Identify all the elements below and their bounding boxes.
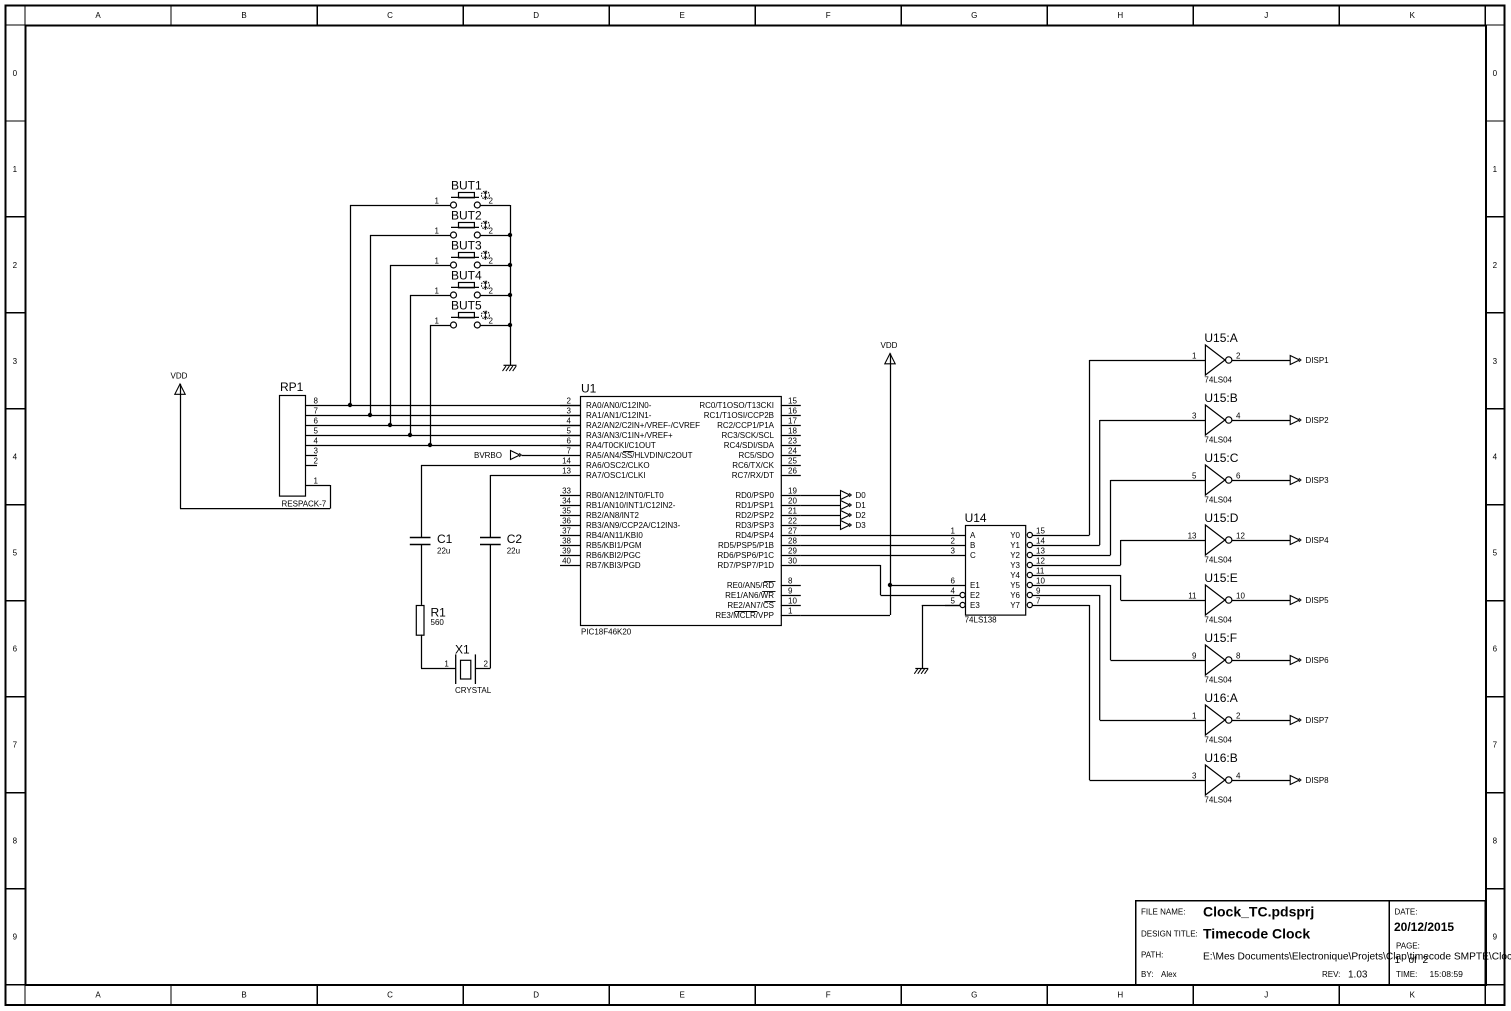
svg-text:7: 7 <box>13 741 18 750</box>
svg-text:3: 3 <box>1493 357 1498 366</box>
svg-text:PIC18F46K20: PIC18F46K20 <box>581 628 632 637</box>
svg-text:A: A <box>970 531 976 540</box>
svg-text:E1: E1 <box>970 581 980 590</box>
svg-text:D0: D0 <box>856 491 867 500</box>
wire U1 OSC1 to C2 <box>490 475 560 537</box>
svg-text:3: 3 <box>567 406 572 415</box>
svg-text:RA3/AN3/C1IN+/VREF+: RA3/AN3/C1IN+/VREF+ <box>586 431 673 440</box>
svg-text:U14: U14 <box>965 511 987 525</box>
svg-text:29: 29 <box>788 546 797 555</box>
svg-text:B: B <box>241 11 246 20</box>
svg-text:RA6/OSC2/CLKO: RA6/OSC2/CLKO <box>586 461 650 470</box>
wire U1 RD1 to terminal D1 <box>801 505 841 507</box>
svg-text:39: 39 <box>562 546 571 555</box>
svg-text:U15:F: U15:F <box>1204 631 1237 645</box>
svg-text:RE1/AN6/WR: RE1/AN6/WR <box>725 591 774 600</box>
svg-text:E: E <box>679 11 684 20</box>
power flag VDD (RP1 common) <box>171 372 188 395</box>
svg-text:12: 12 <box>1036 556 1045 565</box>
svg-text:H: H <box>1117 11 1123 20</box>
svg-text:10: 10 <box>1036 576 1045 585</box>
wire BUT2 pin 1 to RA1 net <box>370 235 451 415</box>
svg-text:4: 4 <box>1236 411 1241 420</box>
svg-text:4: 4 <box>13 453 18 462</box>
svg-text:C1: C1 <box>437 532 453 546</box>
terminal D0 <box>841 491 867 500</box>
svg-text:B: B <box>241 991 246 1000</box>
crystal X1 (CRYSTAL) <box>444 643 491 696</box>
wire BUT1 pin 2 to ground bus <box>480 205 510 207</box>
svg-text:6: 6 <box>567 436 572 445</box>
wire RP1 pin 6 to U1 RA2 <box>306 425 580 427</box>
svg-text:BUT3: BUT3 <box>451 239 482 253</box>
wire VDD rail to MCLR row <box>890 354 892 616</box>
svg-text:Y1: Y1 <box>1010 541 1020 550</box>
svg-text:D1: D1 <box>856 501 867 510</box>
svg-text:1: 1 <box>435 226 440 235</box>
svg-text:RB6/KBI2/PGC: RB6/KBI2/PGC <box>586 551 641 560</box>
svg-text:RC0/T1OSO/T13CKI: RC0/T1OSO/T13CKI <box>699 401 774 410</box>
svg-text:6: 6 <box>314 416 319 425</box>
svg-text:26: 26 <box>788 466 797 475</box>
wire BUT3 pin 2 to ground bus <box>480 265 510 267</box>
svg-text:C: C <box>387 11 393 20</box>
capacitor C1 (22u) <box>410 532 453 556</box>
resistor pack RP1 (RESPACK-7) <box>280 380 327 509</box>
svg-text:27: 27 <box>788 526 797 535</box>
svg-text:1: 1 <box>1493 165 1498 174</box>
svg-text:3: 3 <box>314 446 319 455</box>
svg-text:19: 19 <box>788 486 797 495</box>
svg-text:9: 9 <box>1192 651 1197 660</box>
svg-text:1: 1 <box>444 660 449 669</box>
wire U14 Y0 to U15:A input <box>1045 360 1205 536</box>
svg-text:1: 1 <box>314 476 319 485</box>
svg-text:Alex: Alex <box>1161 970 1177 979</box>
svg-text:RC7/RX/DT: RC7/RX/DT <box>732 471 774 480</box>
svg-text:X1: X1 <box>455 643 470 657</box>
svg-text:DISP6: DISP6 <box>1306 656 1330 665</box>
svg-text:E3: E3 <box>970 601 980 610</box>
svg-text:RD3/PSP3: RD3/PSP3 <box>735 521 774 530</box>
terminal DISP7 <box>1290 716 1329 725</box>
svg-text:RB4/AN11/KBI0: RB4/AN11/KBI0 <box>586 531 643 540</box>
inverter U16:A (74LS04) <box>1192 691 1241 745</box>
svg-text:RB2/AN8/INT2: RB2/AN8/INT2 <box>586 511 639 520</box>
svg-text:DISP1: DISP1 <box>1306 356 1330 365</box>
svg-text:U16:A: U16:A <box>1204 691 1237 705</box>
svg-text:DISP5: DISP5 <box>1306 596 1330 605</box>
svg-text:BVRBO: BVRBO <box>474 451 502 460</box>
svg-text:1.03: 1.03 <box>1348 970 1368 981</box>
wire U14 E3 to ground <box>922 605 960 668</box>
svg-text:DISP8: DISP8 <box>1306 776 1330 785</box>
inverter U15:C (74LS04) <box>1192 451 1241 505</box>
wire VDD to RP1 pin 1 <box>180 384 331 509</box>
push button BUT3 <box>435 239 494 269</box>
svg-text:RB5/KBI1/PGM: RB5/KBI1/PGM <box>586 541 642 550</box>
svg-text:20: 20 <box>788 496 797 505</box>
svg-text:DESIGN TITLE:: DESIGN TITLE: <box>1141 930 1198 939</box>
wire BUT4 pin 1 to RA3 net <box>410 295 451 435</box>
svg-text:Clock_TC.pdsprj: Clock_TC.pdsprj <box>1203 904 1314 920</box>
svg-text:3: 3 <box>1192 771 1197 780</box>
svg-text:14: 14 <box>1036 536 1045 545</box>
svg-text:RB0/AN12/INT0/FLT0: RB0/AN12/INT0/FLT0 <box>586 491 664 500</box>
svg-text:5: 5 <box>567 426 572 435</box>
wire BUT5 pin 1 to RA4 net <box>430 325 451 445</box>
terminal DISP8 <box>1290 776 1329 785</box>
svg-text:4: 4 <box>1493 453 1498 462</box>
wire BUT1 pin 1 to RA0 net <box>350 205 451 405</box>
wire U1 RD4 to U14 A <box>801 535 945 537</box>
svg-text:33: 33 <box>562 486 571 495</box>
svg-text:U1: U1 <box>581 382 597 396</box>
svg-text:25: 25 <box>788 456 797 465</box>
svg-text:9: 9 <box>788 586 793 595</box>
junction bus-BUT3 <box>508 263 512 267</box>
svg-text:4: 4 <box>567 416 572 425</box>
wire U15:A output to DISP1 <box>1232 360 1290 362</box>
svg-text:37: 37 <box>562 526 571 535</box>
svg-text:74LS04: 74LS04 <box>1204 376 1232 385</box>
svg-text:34: 34 <box>562 496 571 505</box>
svg-text:12: 12 <box>1236 531 1245 540</box>
svg-text:of: of <box>1409 955 1418 966</box>
junction RA4 net <box>428 443 432 447</box>
svg-text:E2: E2 <box>970 591 980 600</box>
svg-text:BUT1: BUT1 <box>451 179 482 193</box>
wire BVRBO to U1 RA5 <box>522 455 560 457</box>
svg-text:DISP2: DISP2 <box>1306 416 1330 425</box>
svg-text:1: 1 <box>788 606 793 615</box>
svg-text:2: 2 <box>489 316 494 325</box>
svg-text:4: 4 <box>314 436 319 445</box>
svg-text:RD7/PSP7/P1D: RD7/PSP7/P1D <box>718 561 775 570</box>
svg-text:560: 560 <box>431 618 445 627</box>
wire U14 Y1 to U15:B input <box>1045 420 1205 546</box>
svg-text:8: 8 <box>1493 837 1498 846</box>
svg-text:8: 8 <box>13 837 18 846</box>
wire U1 RD6 to U14 C <box>801 555 945 557</box>
svg-text:FILE NAME:: FILE NAME: <box>1141 908 1185 917</box>
svg-text:RC3/SCK/SCL: RC3/SCK/SCL <box>722 431 775 440</box>
inverter U15:B (74LS04) <box>1192 391 1241 445</box>
svg-text:0: 0 <box>1493 69 1498 78</box>
svg-text:H: H <box>1117 991 1123 1000</box>
svg-text:VDD: VDD <box>171 372 188 381</box>
svg-text:10: 10 <box>788 596 797 605</box>
svg-text:1: 1 <box>1192 711 1197 720</box>
svg-text:RESPACK-7: RESPACK-7 <box>282 500 327 509</box>
junction RA2 net <box>388 423 392 427</box>
svg-text:RB3/AN9/CCP2A/C12IN3-: RB3/AN9/CCP2A/C12IN3- <box>586 521 681 530</box>
svg-text:74LS04: 74LS04 <box>1204 676 1232 685</box>
svg-text:14: 14 <box>562 456 571 465</box>
svg-text:CRYSTAL: CRYSTAL <box>455 686 492 695</box>
svg-text:D3: D3 <box>856 521 867 530</box>
svg-text:1: 1 <box>951 526 956 535</box>
svg-text:20/12/2015: 20/12/2015 <box>1394 920 1454 934</box>
svg-text:2: 2 <box>489 196 494 205</box>
terminal D3 <box>841 521 867 530</box>
svg-text:DATE:: DATE: <box>1395 908 1418 917</box>
junction bus-BUT5 <box>508 323 512 327</box>
wire VDD to U14 E1 <box>890 585 945 587</box>
svg-text:21: 21 <box>788 506 797 515</box>
svg-text:C: C <box>387 991 393 1000</box>
wire U14 Y3 to U15:D input <box>1045 540 1205 566</box>
svg-text:74LS04: 74LS04 <box>1204 796 1232 805</box>
junction bus-BUT4 <box>508 293 512 297</box>
svg-text:8: 8 <box>788 576 793 585</box>
svg-text:RA5/AN4/SS/HLVDIN/C2OUT: RA5/AN4/SS/HLVDIN/C2OUT <box>586 451 693 460</box>
svg-text:REV:: REV: <box>1322 970 1340 979</box>
svg-text:RA0/AN0/C12IN0-: RA0/AN0/C12IN0- <box>586 401 652 410</box>
svg-text:D: D <box>533 11 539 20</box>
svg-text:D: D <box>533 991 539 1000</box>
svg-text:7: 7 <box>1036 596 1041 605</box>
svg-text:74LS04: 74LS04 <box>1204 436 1232 445</box>
wire U1 RD5 to U14 B <box>801 545 945 547</box>
svg-text:6: 6 <box>951 576 956 585</box>
svg-text:RA7/OSC1/CLKI: RA7/OSC1/CLKI <box>586 471 646 480</box>
svg-text:RB7/KBI3/PGD: RB7/KBI3/PGD <box>586 561 641 570</box>
capacitor C2 (22u) <box>480 532 522 556</box>
svg-text:RB1/AN10/INT1/C12IN2-: RB1/AN10/INT1/C12IN2- <box>586 501 676 510</box>
wire U15:D output to DISP4 <box>1232 540 1290 542</box>
svg-text:23: 23 <box>788 436 797 445</box>
svg-text:13: 13 <box>1036 546 1045 555</box>
svg-text:Y5: Y5 <box>1010 581 1020 590</box>
svg-text:U16:B: U16:B <box>1204 751 1237 765</box>
svg-text:RE2/AN7/CS: RE2/AN7/CS <box>727 601 774 610</box>
wire BUT5 pin 2 to ground bus <box>480 325 510 327</box>
svg-text:0: 0 <box>13 69 18 78</box>
wire U1 RD7 to U14 E2 <box>801 565 945 596</box>
svg-text:RE3/MCLR/VPP: RE3/MCLR/VPP <box>715 611 774 620</box>
svg-text:RD1/PSP1: RD1/PSP1 <box>735 501 774 510</box>
push button BUT2 <box>435 209 494 239</box>
terminal DISP4 <box>1290 536 1329 545</box>
decoder U14 (74LS138) <box>945 511 1045 625</box>
microcontroller U1 (PIC18F46K20) <box>560 382 801 637</box>
wire U15:B output to DISP2 <box>1232 420 1290 422</box>
wire U1 RD2 to terminal D2 <box>801 515 841 517</box>
svg-text:2: 2 <box>1236 711 1241 720</box>
svg-text:E:\Mes Documents\Electronique\: E:\Mes Documents\Electronique\Projets\Cl… <box>1203 952 1511 963</box>
wire U15:F output to DISP6 <box>1232 660 1290 662</box>
wire BUT2 pin 2 to ground bus <box>480 235 510 237</box>
svg-text:38: 38 <box>562 536 571 545</box>
svg-text:16: 16 <box>788 406 797 415</box>
svg-text:1: 1 <box>1192 351 1197 360</box>
svg-text:8: 8 <box>314 396 319 405</box>
svg-text:RD2/PSP2: RD2/PSP2 <box>735 511 774 520</box>
svg-text:RC4/SDI/SDA: RC4/SDI/SDA <box>724 441 775 450</box>
svg-text:VDD: VDD <box>881 341 898 350</box>
junction RA3 net <box>408 433 412 437</box>
wire U1 RD0 to terminal D0 <box>801 495 841 497</box>
svg-text:5: 5 <box>951 596 956 605</box>
resistor R1 (560) <box>416 606 446 636</box>
terminal DISP3 <box>1290 476 1329 485</box>
inverter U15:D (74LS04) <box>1188 511 1246 565</box>
svg-text:13: 13 <box>562 466 571 475</box>
svg-text:24: 24 <box>788 446 797 455</box>
svg-text:5: 5 <box>314 426 319 435</box>
svg-text:C: C <box>970 551 976 560</box>
svg-text:13: 13 <box>1188 531 1197 540</box>
svg-text:C2: C2 <box>507 532 523 546</box>
svg-text:RD6/PSP6/P1C: RD6/PSP6/P1C <box>718 551 775 560</box>
svg-text:RA2/AN2/C2IN+/VREF-/CVREF: RA2/AN2/C2IN+/VREF-/CVREF <box>586 421 700 430</box>
wire U14 Y5 to U15:F input <box>1045 585 1205 661</box>
svg-text:74LS04: 74LS04 <box>1204 556 1232 565</box>
svg-text:6: 6 <box>1493 645 1498 654</box>
svg-text:7: 7 <box>1493 741 1498 750</box>
svg-text:2: 2 <box>951 536 956 545</box>
svg-text:B: B <box>970 541 975 550</box>
wire RP1 pin 8 to U1 RA0 <box>306 405 580 407</box>
svg-text:22u: 22u <box>437 547 450 556</box>
svg-text:5: 5 <box>1493 549 1498 558</box>
svg-text:TIME:: TIME: <box>1396 970 1417 979</box>
wire U16:A output to DISP7 <box>1232 720 1290 722</box>
ground (button bus) <box>503 365 517 371</box>
svg-text:8: 8 <box>1236 651 1241 660</box>
svg-text:2: 2 <box>1236 351 1241 360</box>
wire RP1 pin 5 to U1 RA3 <box>306 435 580 437</box>
power flag VDD (U14 enable) <box>881 341 898 364</box>
svg-text:6: 6 <box>13 645 18 654</box>
svg-text:Y7: Y7 <box>1010 601 1020 610</box>
junction RA0 net <box>348 403 352 407</box>
wire C2 to X1 pin 2 <box>475 544 490 669</box>
svg-text:Y3: Y3 <box>1010 561 1020 570</box>
svg-text:28: 28 <box>788 536 797 545</box>
terminal BVRBO <box>474 451 522 460</box>
wire U15:C output to DISP3 <box>1232 480 1290 482</box>
svg-text:2: 2 <box>484 660 489 669</box>
inverter U15:E (74LS04) <box>1188 571 1245 625</box>
svg-text:4: 4 <box>951 586 956 595</box>
svg-text:K: K <box>1410 11 1416 20</box>
terminal DISP2 <box>1290 416 1329 425</box>
svg-text:22: 22 <box>788 516 797 525</box>
svg-text:RC1/T1OSI/CCP2B: RC1/T1OSI/CCP2B <box>704 411 774 420</box>
svg-text:BUT2: BUT2 <box>451 209 482 223</box>
svg-text:BUT5: BUT5 <box>451 299 482 313</box>
svg-text:BY:: BY: <box>1141 970 1153 979</box>
svg-text:5: 5 <box>1192 471 1197 480</box>
svg-text:2: 2 <box>13 261 18 270</box>
svg-text:74LS04: 74LS04 <box>1204 616 1232 625</box>
push button BUT5 <box>435 299 494 329</box>
svg-text:PATH:: PATH: <box>1141 951 1163 960</box>
svg-text:RE0/AN5/RD: RE0/AN5/RD <box>727 581 774 590</box>
svg-text:2: 2 <box>567 396 572 405</box>
svg-text:18: 18 <box>788 426 797 435</box>
wire U1 OSC2 to C1 <box>421 465 560 537</box>
terminal DISP1 <box>1290 356 1329 365</box>
wire U1 RD3 to terminal D3 <box>801 525 841 527</box>
svg-text:RP1: RP1 <box>280 380 304 394</box>
wire U1 RE3/MCLR to VDD rail <box>801 615 890 617</box>
svg-text:Y6: Y6 <box>1010 591 1020 600</box>
svg-text:30: 30 <box>788 556 797 565</box>
svg-text:A: A <box>95 991 101 1000</box>
inverter U15:A (74LS04) <box>1192 331 1241 385</box>
svg-text:G: G <box>971 11 977 20</box>
svg-text:Y2: Y2 <box>1010 551 1020 560</box>
svg-text:1: 1 <box>435 256 440 265</box>
svg-text:1: 1 <box>435 286 440 295</box>
svg-text:F: F <box>826 11 831 20</box>
svg-text:4: 4 <box>1236 771 1241 780</box>
wire BUT4 pin 2 to ground bus <box>480 295 510 297</box>
push button BUT4 <box>435 269 494 299</box>
svg-text:2: 2 <box>489 256 494 265</box>
svg-text:Timecode Clock: Timecode Clock <box>1203 926 1310 942</box>
svg-text:K: K <box>1410 991 1416 1000</box>
svg-text:22u: 22u <box>507 547 520 556</box>
svg-text:1: 1 <box>435 196 440 205</box>
svg-text:17: 17 <box>788 416 797 425</box>
svg-text:2: 2 <box>489 226 494 235</box>
svg-text:Y4: Y4 <box>1010 571 1020 580</box>
svg-text:7: 7 <box>314 406 319 415</box>
svg-text:3: 3 <box>13 357 18 366</box>
svg-text:RC5/SDO: RC5/SDO <box>738 451 774 460</box>
svg-text:11: 11 <box>1188 591 1197 600</box>
wire ground bus of buttons <box>510 205 512 365</box>
wire U15:E output to DISP5 <box>1232 600 1290 602</box>
svg-text:15: 15 <box>788 396 797 405</box>
wire C1 to R1 <box>421 544 423 605</box>
svg-text:1: 1 <box>1395 955 1401 966</box>
push button BUT1 <box>435 179 494 209</box>
svg-text:RD5/PSP5/P1B: RD5/PSP5/P1B <box>718 541 774 550</box>
wire R1 to X1 pin 1 <box>421 635 456 669</box>
svg-text:2: 2 <box>1423 955 1429 966</box>
svg-text:J: J <box>1264 991 1268 1000</box>
svg-text:1: 1 <box>435 316 440 325</box>
svg-text:6: 6 <box>1236 471 1241 480</box>
svg-text:2: 2 <box>314 456 319 465</box>
svg-text:G: G <box>971 991 977 1000</box>
svg-text:U15:D: U15:D <box>1204 511 1238 525</box>
svg-text:RA1/AN1/C12IN1-: RA1/AN1/C12IN1- <box>586 411 652 420</box>
wire RP1 pin 7 to U1 RA1 <box>306 415 580 417</box>
svg-text:RD0/PSP0: RD0/PSP0 <box>735 491 774 500</box>
svg-text:BUT4: BUT4 <box>451 269 482 283</box>
inverter U15:F (74LS04) <box>1192 631 1241 685</box>
svg-text:E: E <box>679 991 684 1000</box>
terminal DISP6 <box>1290 656 1329 665</box>
wire RP1 pin 4 to U1 RA4 <box>306 445 580 447</box>
svg-text:RC6/TX/CK: RC6/TX/CK <box>732 461 774 470</box>
wire U14 Y6 to U16:A input <box>1045 595 1205 721</box>
svg-text:U15:E: U15:E <box>1204 571 1237 585</box>
svg-text:DISP7: DISP7 <box>1306 716 1330 725</box>
svg-text:7: 7 <box>567 446 572 455</box>
wire U16:B output to DISP8 <box>1232 780 1290 782</box>
inverter U16:B (74LS04) <box>1192 751 1241 805</box>
svg-text:5: 5 <box>13 549 18 558</box>
svg-text:74LS138: 74LS138 <box>965 616 998 625</box>
svg-text:D2: D2 <box>856 511 867 520</box>
